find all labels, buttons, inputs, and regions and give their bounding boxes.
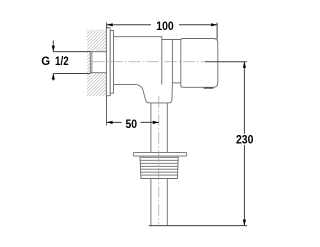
svg-text:230: 230 xyxy=(236,134,253,147)
svg-text:50: 50 xyxy=(125,119,137,132)
svg-text:1/2: 1/2 xyxy=(55,55,69,68)
svg-text:G: G xyxy=(41,55,50,68)
svg-text:100: 100 xyxy=(156,20,173,33)
